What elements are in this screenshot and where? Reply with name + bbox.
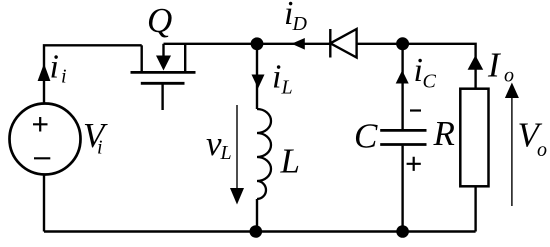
wire capacitor top bbox=[401, 44, 403, 129]
svg-text:D: D bbox=[292, 13, 308, 35]
svg-text:o: o bbox=[537, 139, 547, 161]
node A junction dot bbox=[251, 37, 264, 50]
svg-text:C: C bbox=[354, 117, 378, 156]
svg-text:i: i bbox=[50, 49, 59, 86]
svg-text:R: R bbox=[433, 114, 455, 153]
plus sign in source bbox=[33, 117, 48, 132]
capacitor minus label bbox=[410, 109, 421, 111]
svg-text:i: i bbox=[272, 59, 281, 96]
svg-text:L: L bbox=[220, 142, 232, 164]
wire bottom-left vertical bbox=[43, 175, 45, 232]
arrow vL shaft bbox=[236, 105, 238, 189]
svg-text:C: C bbox=[423, 71, 437, 93]
arrow vL head bbox=[230, 188, 244, 205]
svg-text:o: o bbox=[504, 64, 514, 86]
svg-text:V: V bbox=[83, 116, 108, 155]
arrow iL head bbox=[252, 75, 265, 89]
wire top rail middle bbox=[164, 43, 331, 45]
svg-text:i: i bbox=[61, 66, 67, 88]
svg-text:L: L bbox=[280, 141, 300, 180]
transistor Q left stub bbox=[140, 45, 142, 71]
wire capacitor bottom bbox=[401, 146, 403, 232]
capacitor plus label bbox=[407, 157, 421, 171]
svg-text:L: L bbox=[281, 76, 293, 98]
transistor Q gate plate bbox=[141, 82, 185, 85]
arrow Vo shaft bbox=[511, 97, 513, 206]
wire inductor bottom bbox=[256, 199, 258, 232]
capacitor C bottom plate bbox=[380, 143, 426, 146]
arrow Io head bbox=[468, 55, 484, 70]
voltage source Vi bbox=[10, 104, 81, 175]
wire inductor top bbox=[256, 44, 258, 109]
wire top-left corner and left vertical bbox=[44, 45, 142, 103]
node B junction dot bbox=[396, 37, 409, 50]
transistor Q channel bar bbox=[131, 71, 196, 74]
transistor Q drain arrow head bbox=[156, 56, 171, 71]
inductor L coil bbox=[257, 109, 271, 199]
arrow Vo head bbox=[505, 83, 519, 99]
wire resistor bottom bbox=[474, 186, 476, 231]
arrow ii head bbox=[38, 64, 51, 82]
resistor R box bbox=[460, 89, 488, 187]
wire bottom rail bbox=[44, 230, 476, 232]
arrow iD head bbox=[292, 38, 305, 50]
svg-text:Q: Q bbox=[147, 1, 172, 40]
transistor Q right stub bbox=[184, 44, 186, 71]
node A2 bottom junction dot bbox=[250, 225, 263, 238]
svg-text:i: i bbox=[97, 137, 103, 159]
diode D cathode bar bbox=[329, 29, 331, 58]
wire top rail right bbox=[357, 44, 476, 89]
node B2 bottom junction dot bbox=[396, 225, 409, 238]
transistor Q drain arrow shaft bbox=[162, 44, 164, 57]
transistor Q gate lead bbox=[161, 84, 163, 110]
arrow iC head bbox=[396, 70, 409, 83]
diode D triangle bbox=[330, 29, 356, 58]
svg-text:I: I bbox=[487, 45, 502, 84]
capacitor C top plate bbox=[380, 129, 426, 132]
minus sign in source bbox=[34, 157, 50, 159]
